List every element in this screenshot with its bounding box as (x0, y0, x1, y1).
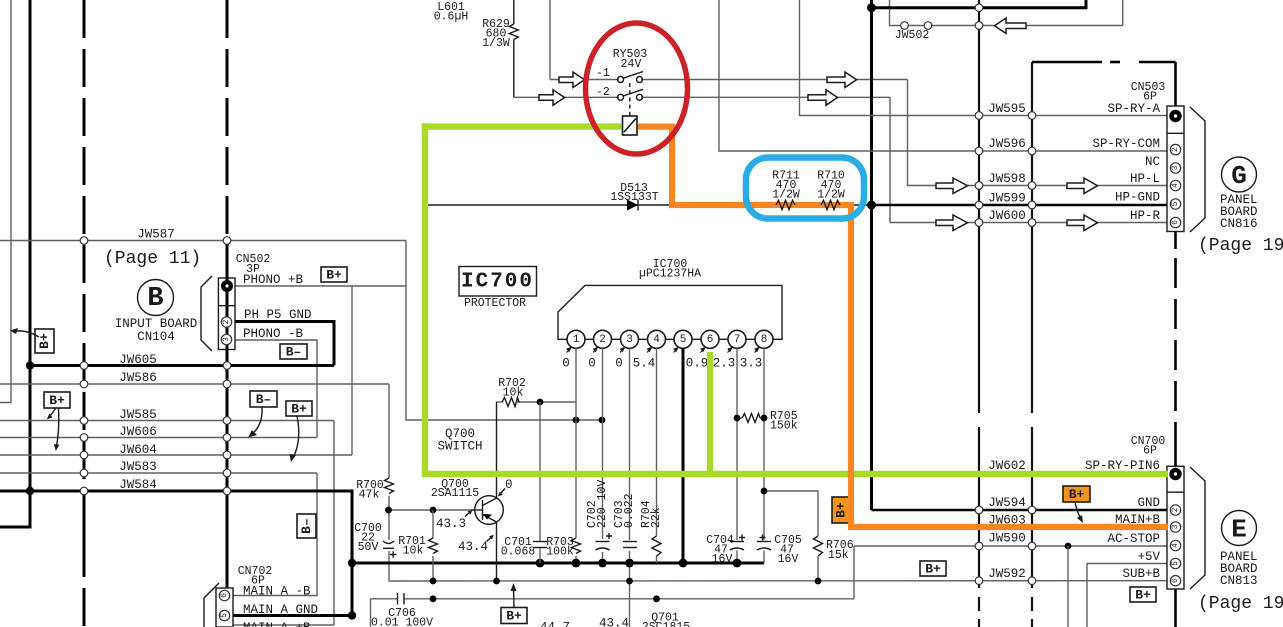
svg-text:HP-R: HP-R (1130, 209, 1161, 223)
svg-text:IC700: IC700 (461, 271, 534, 294)
svg-text:0.01 100V: 0.01 100V (371, 617, 433, 627)
node open circles AC-STOP (975, 542, 983, 550)
node junction R705 pin8 (761, 415, 768, 422)
svg-text:JW604: JW604 (119, 443, 157, 457)
pin 1 CN503 filled (1169, 110, 1181, 122)
svg-text:(Page 11): (Page 11) (104, 249, 201, 269)
svg-text:3: 3 (1171, 524, 1180, 529)
svg-text:MAIN A GND: MAIN A GND (243, 603, 318, 617)
svg-text:(Page 19: (Page 19 (1198, 236, 1283, 256)
wire green pin6 drop (707, 352, 713, 477)
svg-text:2SC1815: 2SC1815 (642, 621, 690, 627)
svg-text:5: 5 (220, 613, 229, 618)
svg-text:B–: B– (256, 392, 272, 407)
svg-text:15k: 15k (828, 549, 849, 562)
wire GND thick line (872, 509, 1168, 512)
wire C701 drop (539, 402, 541, 541)
wire pin1 drop (575, 348, 577, 538)
svg-text:0.068: 0.068 (501, 546, 536, 559)
svg-text:2.3: 2.3 (713, 357, 736, 371)
pin 5 CN700 (1170, 558, 1180, 568)
pin 1 CN700 redraw (1168, 467, 1183, 491)
wire MAIN A +B (233, 624, 334, 626)
wire JW583 drop to MAIN A -B (233, 473, 317, 596)
svg-text:44.7: 44.7 (540, 621, 570, 627)
arrow from B+ rotated to rail (16, 331, 39, 337)
capacitor C705 electrolytic (757, 541, 771, 543)
svg-text:INPUT BOARD: INPUT BOARD (115, 317, 198, 331)
wire AC-STOP riser to C706 line (853, 546, 855, 599)
wire ground bus thick y563 (352, 562, 764, 565)
power label B+ box below SUB+B (1130, 587, 1156, 603)
wire JW587 (0, 240, 406, 242)
power label B+ box left of JW585 (44, 392, 70, 408)
svg-text:JW595: JW595 (988, 102, 1026, 116)
node junction AC-STOP drop (1065, 543, 1072, 550)
svg-text:+5V: +5V (1137, 550, 1160, 564)
wire D513 line (427, 204, 872, 206)
node junction pin8/R706 (761, 488, 768, 495)
svg-text:2: 2 (599, 334, 606, 346)
wire relay line2 (514, 96, 619, 98)
svg-text:JW596: JW596 (988, 137, 1026, 151)
node open circles HP-R (975, 219, 983, 227)
bracket CN502 (201, 276, 212, 351)
pin 1 CN502 filled (221, 280, 233, 292)
connector CN502 box (218, 278, 235, 350)
resistor R700 (385, 478, 394, 494)
pin 2 CN700 (1170, 505, 1180, 515)
svg-text:24V: 24V (621, 58, 642, 71)
svg-text:(Page 19: (Page 19 (1198, 594, 1283, 614)
svg-text:50V: 50V (358, 541, 379, 554)
svg-text:E: E (1231, 515, 1247, 545)
svg-text:3: 3 (626, 334, 633, 346)
svg-text:PH P5 GND: PH P5 GND (244, 308, 312, 322)
arrow on HP-R left (936, 215, 968, 231)
wire dash-dot header to CN503 (1032, 61, 1102, 64)
annotation blue rounded box R711 R710 (746, 158, 864, 219)
svg-text:47k: 47k (359, 489, 380, 502)
resistor R629 (513, 0, 515, 24)
svg-text:150k: 150k (770, 420, 798, 433)
svg-text:100k: 100k (546, 546, 574, 559)
svg-text:JW585: JW585 (119, 408, 157, 422)
svg-text:6: 6 (220, 593, 229, 598)
node junction R705 pin7 (734, 415, 741, 422)
svg-text:GND: GND (1137, 496, 1160, 510)
svg-text:JW598: JW598 (988, 172, 1026, 186)
node B circle (138, 280, 174, 316)
relay actuator dashed link (629, 83, 631, 116)
arrow on line2 right (808, 90, 838, 106)
svg-text:JW594: JW594 (988, 496, 1026, 510)
node junction base/R701 (430, 507, 437, 514)
svg-text:4: 4 (1171, 183, 1180, 188)
svg-text:0: 0 (562, 357, 570, 371)
svg-text:1/3W: 1/3W (482, 37, 510, 50)
pin 6 CN702 (219, 590, 229, 600)
svg-text:1SS133T: 1SS133T (610, 191, 658, 204)
power label B- box above JW585 (250, 391, 277, 407)
svg-text:2: 2 (222, 319, 231, 324)
svg-text:HP-L: HP-L (1130, 172, 1160, 186)
svg-text:PHONO -B: PHONO -B (243, 327, 304, 341)
node junction JW584 x30 (26, 487, 34, 495)
svg-text:PHONO +B: PHONO +B (243, 273, 304, 287)
wire relay line1 (550, 79, 619, 81)
IC700 boxed designator (459, 267, 537, 297)
svg-text:0.9: 0.9 (686, 357, 709, 371)
svg-text:43.3: 43.3 (436, 517, 466, 531)
svg-text:43.4: 43.4 (458, 540, 488, 554)
capacitor C706 (397, 593, 399, 605)
pin 4 CN700 (1170, 540, 1180, 550)
pin 1 IC700 (567, 330, 585, 348)
svg-text:AC-STOP: AC-STOP (1107, 532, 1160, 546)
svg-text:2SA1115: 2SA1115 (431, 487, 479, 500)
node junction bus dots (536, 559, 545, 568)
node junction top rail (867, 3, 876, 12)
wire JW586 (0, 383, 389, 385)
resistor R711 overlay (776, 201, 795, 210)
svg-text:B+: B+ (49, 393, 65, 408)
capacitor C700 (383, 541, 394, 544)
relay contact 1 (618, 77, 624, 83)
wire PH P5 GND thick to JW605 (235, 322, 334, 366)
wire CN700 bottom stem (1174, 589, 1177, 627)
node junction HP-GND x872 (867, 201, 876, 210)
wire HP-L feed (908, 80, 1168, 186)
wire orange highlight net MAIN+B (637, 127, 1171, 527)
svg-text:JW586: JW586 (119, 371, 157, 385)
wire SP-RY-A feed (800, 0, 1168, 116)
power label B+ arrow box bottom (501, 608, 527, 624)
node junction pin1 y420 (573, 417, 580, 424)
IC700 package outline (558, 285, 782, 339)
pin 3 CN502 (221, 334, 231, 344)
pin 2 CN503 (1170, 144, 1180, 154)
node junction pin2 y420 (599, 417, 606, 424)
node junction rail R701 (430, 578, 437, 585)
wire thick top rail (872, 0, 1087, 8)
arrow on HP-L left (936, 178, 968, 194)
svg-text:B+: B+ (291, 402, 307, 417)
svg-text:MAIN A +B: MAIN A +B (243, 621, 311, 627)
arrow on line1 right (827, 72, 857, 88)
pin 3 CN503 (1170, 163, 1180, 173)
wire PHONO +B (235, 285, 406, 287)
wire orange from relay coil (637, 127, 1171, 527)
svg-text:JW583: JW583 (119, 460, 157, 474)
power label B+ rotated left (35, 329, 54, 353)
wire vertical bus x=227 lower (226, 240, 229, 588)
svg-text:JW502: JW502 (895, 29, 930, 42)
capacitor C703 (623, 541, 637, 543)
svg-text:5: 5 (680, 334, 687, 346)
svg-text:6: 6 (707, 334, 714, 346)
svg-text:-1: -1 (596, 67, 610, 80)
node open circles GND (975, 506, 983, 514)
wire thick vertical bus x=30 (0, 0, 30, 527)
svg-text:1/2W: 1/2W (772, 189, 800, 202)
wire JW605 thick (30, 364, 334, 367)
pin 5 CN702 (219, 610, 229, 620)
svg-text:JW587: JW587 (137, 228, 175, 242)
pin 4 CN503 (1170, 180, 1180, 190)
wire green top horizontal (422, 123, 623, 129)
wire pin5 drop thick (682, 348, 685, 563)
svg-text:1/2W: 1/2W (817, 189, 845, 202)
svg-text:B–: B– (286, 345, 302, 360)
resistor R706 (814, 536, 823, 556)
wire green highlight net SP-RY-PIN6 (422, 123, 1171, 477)
wire green bus horizontal (422, 471, 1171, 477)
svg-text:B+: B+ (1069, 487, 1085, 502)
wire solid patch on x=84 (83, 491, 86, 567)
bracket CN700 (1190, 467, 1205, 589)
node junction base/R700 (385, 507, 392, 514)
wire long vertical x1032 (1031, 62, 1033, 413)
node open circles SUB+B rail (975, 577, 983, 585)
wire Q700 emitter up (496, 402, 498, 498)
node junction C706 (430, 595, 437, 602)
svg-text:10k: 10k (503, 387, 524, 400)
svg-text:PROTECTOR: PROTECTOR (464, 297, 526, 310)
power label B- box mid (280, 344, 307, 360)
node open circles SP-RY-A (975, 112, 983, 120)
connector CN702 box (216, 588, 233, 627)
wire JW604 (0, 454, 352, 456)
capacitor C702 electrolytic (596, 541, 610, 543)
svg-text:HP-GND: HP-GND (1115, 191, 1160, 205)
node G circle (1222, 157, 1257, 192)
annotation red ellipse RY503 (586, 23, 688, 154)
pin 3 CN700 redraw (1168, 521, 1183, 533)
wire HP-GND thick segment (872, 204, 1168, 207)
bracket CN503 (1190, 107, 1205, 232)
node junction bus x352 (348, 559, 356, 567)
wire PHONO +B drop to JW604 (351, 286, 353, 455)
wire green left vertical (422, 123, 428, 477)
svg-text:6: 6 (1171, 578, 1180, 583)
svg-text:µPC1237HA: µPC1237HA (639, 268, 701, 281)
node open circles HP-L (975, 182, 983, 190)
wire MAIN A GND thick (233, 614, 352, 617)
arrow from left B+ to JW585 (51, 408, 57, 416)
wire pin4 drop (656, 348, 658, 536)
node open circles HP-GND (975, 201, 983, 209)
svg-text:SP-RY-A: SP-RY-A (1107, 102, 1160, 116)
wire pin7 drop (736, 348, 738, 540)
power label B+ orange box (1063, 486, 1090, 502)
svg-text:B+: B+ (1135, 588, 1151, 603)
svg-text:NC: NC (1145, 155, 1160, 169)
svg-text:B–: B– (299, 518, 314, 534)
svg-text:6P: 6P (1143, 445, 1157, 458)
resistor R702 zigzag (502, 398, 519, 407)
svg-text:MAIN A -B: MAIN A -B (243, 585, 311, 599)
svg-text:B+: B+ (326, 268, 342, 283)
capacitor C704 electrolytic (730, 541, 744, 543)
pin 5 CN503 (1170, 199, 1180, 209)
wire thick vertical x872 (870, 0, 873, 510)
svg-text:5: 5 (1171, 561, 1180, 566)
wire AC-STOP (854, 545, 1167, 547)
svg-text:22k: 22k (650, 507, 663, 528)
wire R702 branch (496, 401, 502, 403)
relay RY503 coil (623, 116, 638, 135)
resistor R701 (429, 538, 438, 554)
svg-text:B+: B+ (506, 609, 522, 624)
node JW502 circle b (924, 22, 932, 30)
svg-text:3.3: 3.3 (740, 357, 763, 371)
svg-text:0: 0 (505, 478, 513, 492)
wire SP-RY-COM feed (719, 0, 1167, 151)
connector CN503 box (1167, 106, 1184, 232)
arrow from orange B+ to MAIN+B (1075, 502, 1081, 519)
svg-text:0.022: 0.022 (623, 493, 636, 528)
svg-text:16V: 16V (712, 553, 733, 566)
svg-text:2: 2 (1171, 507, 1180, 512)
svg-text:CN816: CN816 (1220, 217, 1258, 231)
wire R701 drop (432, 510, 434, 538)
capacitor C701 (533, 541, 547, 543)
svg-text:-2: -2 (596, 86, 610, 99)
node junction JW605 x30 (26, 361, 34, 369)
svg-text:5: 5 (1171, 201, 1180, 206)
node junction rail collector (493, 578, 500, 585)
bracket CN702 (204, 583, 219, 627)
wire JW586 drop through R700 to B+ rail (388, 384, 390, 478)
pin 7 IC700 (728, 330, 746, 348)
svg-text:6: 6 (1171, 220, 1180, 225)
arrow from B+ to JW583 (293, 416, 299, 458)
svg-text:JW600: JW600 (988, 209, 1026, 223)
power label B+ orange rotated (832, 497, 850, 523)
svg-text:SWITCH: SWITCH (437, 440, 482, 454)
svg-text:SUB+B: SUB+B (1122, 567, 1160, 581)
svg-text:7: 7 (734, 334, 741, 346)
svg-text:JW606: JW606 (119, 425, 157, 439)
resistor R711 (black zigzag over orange) (776, 201, 795, 210)
pin 2 CN502 (221, 317, 231, 327)
svg-text:B+: B+ (37, 333, 52, 349)
pin 3 IC700 (621, 330, 639, 348)
diode D513 (627, 200, 638, 211)
svg-text:10k: 10k (403, 545, 424, 558)
svg-text:B: B (147, 284, 163, 314)
node JW502 circle a (901, 22, 909, 30)
pin 6 IC700 (701, 330, 719, 348)
wire pin2 drop (602, 348, 604, 539)
wire dashed vertical between connectors (1174, 232, 1177, 250)
connector CN700 box (1167, 466, 1184, 589)
wire vertical far-left rail (0, 0, 11, 403)
wire JW606 (0, 437, 317, 439)
svg-text:0.6µH: 0.6µH (434, 11, 469, 24)
svg-text:B+: B+ (925, 562, 941, 577)
svg-text:JW584: JW584 (119, 478, 157, 492)
svg-text:CN104: CN104 (137, 330, 175, 344)
svg-text:JW592: JW592 (988, 567, 1026, 581)
relay contact 2 (618, 94, 624, 100)
svg-text:3: 3 (222, 337, 231, 342)
wire JW502 link (904, 25, 1123, 27)
wire base line (389, 509, 472, 511)
svg-text:4: 4 (653, 334, 660, 346)
wire JW585 drop to MAIN A +B (333, 421, 335, 626)
svg-text:0: 0 (588, 357, 596, 371)
resistor R710 zigzag (821, 201, 840, 210)
pin 2 IC700 (594, 330, 612, 348)
svg-text:2: 2 (1171, 147, 1180, 152)
wire JW583 (0, 472, 317, 474)
pin 6 CN503 (1170, 217, 1180, 227)
wire C705 to R706 (764, 491, 818, 536)
power label B+ box near JW592 (920, 561, 946, 577)
svg-text:16V: 16V (778, 553, 799, 566)
pin 8 IC700 (755, 330, 773, 348)
pin 5 IC700 (674, 330, 692, 348)
svg-text:3: 3 (1171, 165, 1180, 170)
resistor R704 on pin4 line (652, 536, 661, 556)
wire JW585 (0, 420, 334, 422)
resistor R705 between pin7 pin8 (737, 417, 742, 419)
power label B- rotated bottom (297, 514, 316, 538)
svg-text:JW599: JW599 (988, 192, 1026, 206)
node junction R702/C701 (537, 399, 544, 406)
resistor R703 on pin1 line (572, 538, 581, 554)
svg-text:43.4: 43.4 (599, 617, 629, 627)
node open circles SP-RY-COM (975, 147, 983, 155)
arrow on line2 (539, 90, 565, 106)
pin 6 CN700 (1170, 576, 1180, 586)
wire pin8 drop (763, 348, 765, 540)
wire long vertical x979 (978, 0, 980, 413)
svg-text:G: G (1231, 161, 1247, 191)
svg-text:B+: B+ (834, 502, 849, 518)
wire pin3 drop (629, 348, 631, 540)
wire dashed vertical bus x=227 upper (226, 0, 229, 240)
svg-text:4: 4 (1171, 543, 1180, 548)
wire Q700 collector down (496, 522, 498, 581)
wire JW502 riser (890, 0, 905, 26)
svg-text:5.4: 5.4 (633, 357, 656, 371)
wire PHONO -B drop to JW606 (235, 340, 317, 438)
wire JW587 drop to pin network (406, 241, 602, 421)
wire JW584 thick (0, 491, 352, 616)
wire AC-STOP drop (1067, 546, 1069, 627)
node junction rail pin3 (626, 578, 633, 585)
power label B+ box right mid (286, 401, 312, 417)
power label B+ box near CN502 (321, 267, 347, 283)
transistor Q700 (475, 496, 504, 525)
node junction GND drop (348, 611, 356, 619)
svg-text:8: 8 (761, 334, 768, 346)
svg-text:220 10V: 220 10V (596, 480, 609, 528)
svg-text:SP-RY-COM: SP-RY-COM (1092, 137, 1160, 151)
svg-text:1: 1 (573, 334, 580, 346)
wire B+ rail (389, 580, 1168, 582)
arrow left on JW502 line (995, 18, 1027, 34)
arrow from B- to JW606 (252, 407, 262, 434)
wire C706 top (371, 598, 398, 600)
wire dashed vertical bus x=84 (83, 0, 86, 627)
node junction Q701 branch (653, 595, 660, 602)
svg-text:JW605: JW605 (119, 353, 157, 367)
wire relay line1 riser (549, 0, 551, 80)
